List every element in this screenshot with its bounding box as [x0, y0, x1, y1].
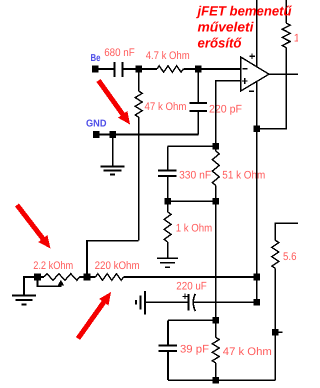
capacitor C5 39pF plates — [158, 346, 177, 351]
svg-text:5.6: 5.6 — [283, 251, 297, 263]
svg-text:220 kOhm: 220 kOhm — [95, 260, 140, 272]
svg-text:1: 1 — [294, 32, 298, 44]
svg-text:GND: GND — [86, 119, 107, 130]
wire 47k bottom stems — [215, 320, 217, 337]
wire node 320 left to 39pF branch — [168, 319, 216, 321]
red arrow 2 — [17, 205, 51, 249]
svg-text:Be: Be — [91, 53, 101, 64]
svg-text:220 pF: 220 pF — [209, 103, 242, 115]
wire output — [269, 73, 298, 75]
red arrow 3 — [78, 292, 111, 339]
wiper arrowhead — [58, 280, 64, 286]
wire op-amp plus input — [216, 81, 241, 151]
wire C3 bottom to rail — [167, 177, 169, 202]
capacitor C3 330nF plates — [158, 170, 176, 175]
ground symbol below 1k — [157, 258, 178, 267]
rotated ground symbol 220uF left — [146, 301, 188, 303]
node B — [135, 66, 142, 73]
resistor R4 1k zigzag — [164, 212, 171, 242]
wire feedback vertical — [257, 48, 286, 129]
wire supply vertical x=256.8 — [256, 0, 258, 302]
svg-text:2.2 kOhm: 2.2 kOhm — [33, 260, 73, 272]
wire resistor R1 right to node C and op-amp minus input — [183, 68, 240, 70]
svg-text:47 k Ohm: 47 k Ohm — [145, 101, 187, 113]
wire R3 bottom to rail — [215, 186, 217, 202]
wire cap C1 to node B — [123, 68, 157, 70]
svg-text:330 nF: 330 nF — [179, 170, 211, 182]
node gnd rail left — [93, 131, 100, 138]
wire 1k stem top — [167, 201, 169, 212]
wire R2 bottom to ground rail and down to corner — [138, 117, 140, 241]
wire rail y=201.3 — [168, 200, 216, 202]
op-amp plus input sign — [242, 78, 248, 84]
wire 330nF top tap y=146.3 — [168, 145, 216, 147]
wire GND stem — [112, 135, 114, 167]
node pot left — [34, 274, 41, 281]
resistor R7 1x zigzag — [282, 23, 290, 47]
wire overdraw plus-input line through 220pF label — [215, 102, 217, 116]
svg-text:680 nF: 680 nF — [104, 47, 135, 59]
wire 330nF stem — [167, 146, 169, 169]
ground symbol left pot — [12, 296, 36, 305]
node C — [195, 66, 202, 73]
resistor R9 5.6 zigzag — [272, 240, 279, 268]
wire ground rail y=134.5 — [96, 134, 198, 136]
wire top right resistor stem — [285, 0, 287, 23]
node rail 201 right — [213, 198, 220, 205]
node pot right — [84, 274, 91, 281]
node right column stub — [272, 329, 279, 336]
wire input rail y=69 — [95, 68, 113, 70]
wire bottom rail y=276.8 — [38, 276, 45, 278]
svg-text:47 k Ohm: 47 k Ohm — [223, 346, 272, 358]
wire corner path from R2 line down to pot rail — [87, 241, 139, 277]
title text — [196, 4, 293, 51]
capacitor C4 220uF plates — [188, 294, 190, 310]
wire node B down — [138, 69, 140, 91]
wire pot wiper — [38, 280, 61, 286]
resistor R2 47k zigzag — [135, 91, 142, 117]
op-amp bottom minus power — [249, 90, 254, 92]
node bottom rail — [213, 377, 220, 384]
op-amp U1 triangle — [241, 57, 269, 91]
wire stub at node 332 — [275, 331, 282, 333]
wire 220uF right to node — [194, 301, 257, 303]
node squares — [34, 66, 278, 384]
node 220uF right end — [254, 299, 261, 306]
resistor R6 220k zigzag — [96, 274, 124, 281]
node 39pF branch — [213, 317, 220, 324]
red arrow 1 — [99, 81, 131, 125]
svg-text:220 uF: 220 uF — [176, 280, 207, 292]
node plus input tap — [213, 143, 220, 150]
node rail right end — [254, 274, 261, 281]
wire bottom rail — [168, 379, 275, 381]
wire 1k bottom stem — [167, 242, 169, 258]
capacitor C4 plus sign — [182, 294, 187, 299]
svg-text:műveleti: műveleti — [198, 20, 254, 35]
resistor R3 51k zigzag — [212, 151, 219, 186]
ground symbol GND — [101, 167, 125, 175]
wire right column — [275, 223, 298, 240]
node gnd rail tap — [109, 131, 116, 138]
svg-text:erősítő: erősítő — [198, 36, 243, 51]
svg-text:4.7 k Ohm: 4.7 k Ohm — [146, 50, 190, 62]
svg-text:39 pF: 39 pF — [180, 344, 209, 356]
wire right column lower — [274, 268, 276, 380]
wire node C down to C2 — [197, 69, 199, 102]
node Be terminal — [92, 66, 99, 73]
wire 39pF stem top — [167, 320, 169, 345]
node feedback — [254, 126, 261, 133]
op-amp minus input dash — [243, 68, 248, 70]
op-amp top plus power — [249, 54, 254, 59]
wire long vertical x=215.8 mid — [215, 201, 217, 320]
wire pot left leg to ground — [24, 277, 38, 295]
resistor R8 47k zigzag — [212, 337, 219, 363]
svg-text:51 k Ohm: 51 k Ohm — [222, 170, 265, 182]
wire 39pF stem bottom — [167, 352, 169, 381]
svg-text:jFET bemenetű: jFET bemenetű — [196, 4, 293, 19]
capacitor C1 680nF plates — [114, 62, 122, 77]
wire C2 bottom to ground rail — [197, 112, 199, 135]
resistor R1 4.7k zigzag — [157, 66, 183, 72]
capacitor C2 220pF plates — [189, 103, 206, 111]
resistor R5 2.2k zigzag — [44, 274, 80, 281]
svg-text:1 k Ohm: 1 k Ohm — [176, 222, 213, 234]
wire overdraw supply through 51k label — [256, 168, 258, 182]
node rail 201 left — [164, 198, 171, 205]
